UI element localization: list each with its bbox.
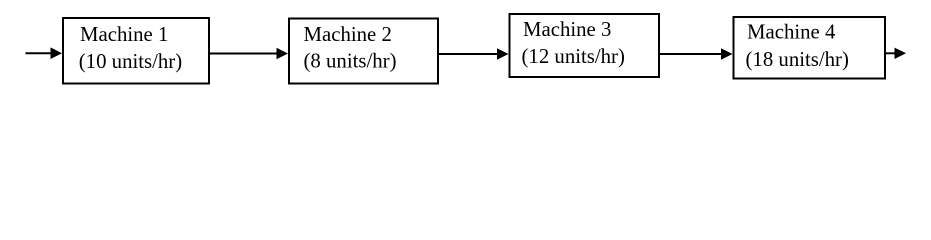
svg-text:(12 units/hr): (12 units/hr) [522,45,625,68]
svg-text:(10 units/hr): (10 units/hr) [79,50,182,73]
svg-text:(8 units/hr): (8 units/hr) [304,50,397,73]
svg-text:Machine 3: Machine 3 [523,18,611,41]
svg-text:(18 units/hr): (18 units/hr) [746,48,849,71]
svg-text:Machine 1: Machine 1 [80,23,168,46]
svg-text:Machine 4: Machine 4 [747,21,836,44]
svg-text:Machine 2: Machine 2 [304,23,392,46]
